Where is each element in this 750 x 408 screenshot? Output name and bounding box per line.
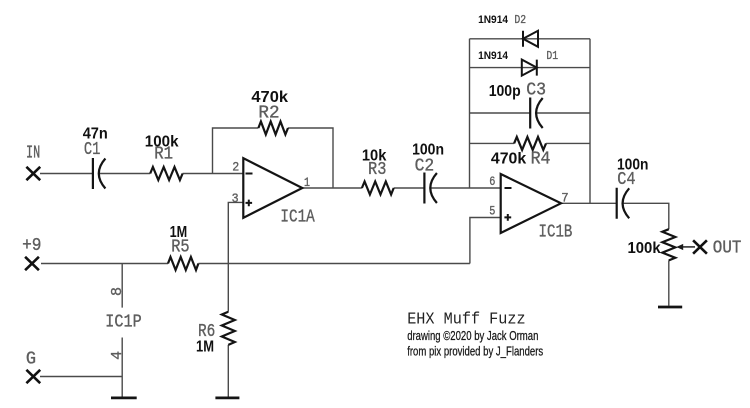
svg-text:4: 4 xyxy=(109,351,126,360)
svg-text:from pix provided by J_Flander: from pix provided by J_Flanders xyxy=(407,343,543,358)
svg-text:2: 2 xyxy=(232,159,239,174)
svg-text:6: 6 xyxy=(489,174,495,189)
svg-text:470k: 470k xyxy=(251,89,288,106)
svg-text:D2: D2 xyxy=(514,13,526,27)
svg-text:100k: 100k xyxy=(145,133,179,150)
svg-text:7: 7 xyxy=(561,191,568,206)
svg-text:G: G xyxy=(26,349,36,369)
svg-text:C2: C2 xyxy=(415,156,435,176)
svg-text:R4: R4 xyxy=(531,149,551,169)
svg-text:R2: R2 xyxy=(258,103,279,123)
svg-text:IC1A: IC1A xyxy=(280,208,315,228)
svg-text:470k: 470k xyxy=(491,150,526,167)
svg-text:1: 1 xyxy=(304,175,310,190)
svg-text:1M: 1M xyxy=(170,224,188,241)
svg-text:EHX Muff Fuzz: EHX Muff Fuzz xyxy=(407,311,525,330)
svg-text:drawing ©2020 by Jack Orman: drawing ©2020 by Jack Orman xyxy=(407,328,538,343)
svg-text:IC1B: IC1B xyxy=(539,222,573,242)
svg-text:100p: 100p xyxy=(489,83,521,100)
svg-text:5: 5 xyxy=(489,204,495,219)
svg-text:C1: C1 xyxy=(84,140,101,160)
svg-text:+9: +9 xyxy=(22,236,41,256)
svg-text:100k: 100k xyxy=(628,240,661,257)
svg-text:100n: 100n xyxy=(412,142,444,159)
svg-text:IC1P: IC1P xyxy=(105,313,141,333)
svg-text:1M: 1M xyxy=(196,338,214,355)
svg-text:1N914: 1N914 xyxy=(478,14,509,26)
svg-text:3: 3 xyxy=(232,191,239,206)
svg-text:C3: C3 xyxy=(526,80,546,100)
svg-text:OUT: OUT xyxy=(713,238,742,258)
svg-text:47n: 47n xyxy=(83,125,108,142)
svg-text:100n: 100n xyxy=(617,156,648,173)
svg-text:D1: D1 xyxy=(546,49,558,63)
svg-text:IN: IN xyxy=(26,144,40,164)
svg-text:1N914: 1N914 xyxy=(478,50,509,62)
svg-text:8: 8 xyxy=(109,287,126,296)
svg-text:10k: 10k xyxy=(362,148,387,165)
